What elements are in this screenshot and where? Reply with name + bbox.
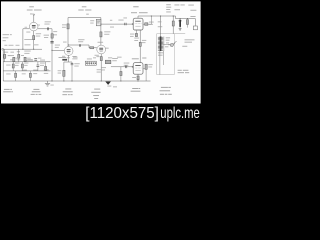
note block 4	[91, 89, 100, 99]
wire cathode tee	[59, 57, 67, 59]
wire grid V1b	[52, 49, 64, 51]
dropping resistor R15	[172, 16, 174, 34]
label row A	[16, 57, 42, 60]
ground bus	[3, 80, 150, 82]
capacitor C1a input row	[34, 57, 37, 60]
title V1a 12AX7	[27, 6, 42, 14]
wire to V1b grid	[51, 29, 53, 81]
grid resistor R12	[120, 67, 122, 81]
cathode V1c	[100, 54, 102, 81]
input notes text	[3, 34, 49, 74]
note block 3	[62, 89, 72, 96]
wire input line	[4, 48, 42, 50]
node bus junctions	[52, 81, 53, 82]
input jack J1	[2, 48, 4, 50]
cathode resistor R2	[33, 31, 35, 49]
white schematic sheet	[1, 1, 201, 103]
wire grid V3	[111, 66, 133, 68]
resistor R7 cathode	[63, 70, 65, 76]
wire heater line 1	[3, 61, 50, 63]
tube V1c	[95, 42, 109, 56]
wire primary return	[159, 51, 161, 75]
wire cathode V1b	[68, 55, 70, 62]
resistor R14	[145, 64, 147, 69]
tube V2	[133, 18, 143, 30]
capacitor C4	[79, 44, 80, 47]
resistor R21	[12, 64, 14, 68]
resistor R25	[29, 73, 31, 77]
wire heater line 2	[3, 70, 50, 72]
resistor R1a input row	[13, 57, 15, 61]
plate resistor R4	[67, 24, 69, 29]
resistor R1b input row	[24, 57, 26, 61]
svg-text:uplc.me: uplc.me	[160, 105, 200, 122]
note rows right mid	[178, 70, 190, 73]
capacitor C2	[47, 27, 48, 30]
note block 2	[31, 89, 42, 95]
capacitor C5	[126, 65, 127, 68]
screen resistor R11	[145, 23, 148, 26]
rectifier block D1	[193, 26, 197, 30]
note block 6	[160, 87, 172, 95]
resistor R1 grid leak	[4, 54, 6, 58]
note mark center	[50, 84, 53, 87]
PSU rail step	[176, 16, 196, 26]
node grid junction	[22, 49, 23, 50]
tube V1a	[29, 22, 38, 31]
pot P1	[105, 60, 111, 64]
cathode V2 long wire	[139, 30, 141, 62]
terminal strip TS1	[85, 61, 96, 65]
B+ stub node	[33, 15, 35, 18]
chassis ground arrow	[105, 82, 111, 85]
coupling wire to V2 grid	[101, 23, 133, 25]
pointer arrow	[173, 41, 176, 44]
wire OPT top extension	[174, 33, 185, 35]
cathode resistor R5b	[62, 59, 67, 61]
wire B+ down to OPT	[160, 16, 162, 36]
filter capacitor C10	[179, 20, 181, 27]
note block 1	[3, 89, 13, 92]
wire input shield	[2, 49, 4, 81]
wire cathode node	[64, 61, 72, 63]
output transformer box	[157, 34, 174, 75]
wire plate V1a	[33, 18, 35, 23]
coupling wire V1b to V1c	[69, 45, 97, 48]
svg-text:[1120x575]: [1120x575]	[85, 105, 159, 122]
capacitor C7	[50, 40, 53, 43]
cathode resistor R13	[137, 75, 139, 81]
wire grid V1a to input	[23, 29, 30, 49]
capacitor C9	[37, 62, 39, 71]
title V2	[131, 6, 148, 13]
ground PSU	[179, 29, 182, 31]
label row	[24, 59, 33, 62]
resistor R16	[186, 20, 188, 25]
speaker jack J2	[170, 43, 173, 46]
PSU labels	[166, 4, 196, 17]
resistor R24	[15, 73, 17, 77]
plate feed V1c	[100, 18, 102, 45]
black background	[0, 0, 204, 124]
node grid V1b	[51, 50, 52, 51]
resistor R23	[45, 66, 47, 70]
tube V1b	[64, 47, 73, 56]
B+ rail	[68, 18, 101, 47]
wire plate V2 to B+	[138, 16, 176, 18]
resistor R3	[18, 54, 20, 58]
resistor R8 plate	[100, 32, 102, 37]
coupling wire V1a plate	[38, 28, 52, 30]
cathode resistor R11a	[135, 33, 137, 36]
transformer T2 winding	[160, 36, 162, 51]
wire secondary tap	[162, 44, 171, 46]
note block 5	[131, 88, 141, 92]
ground symbol left	[47, 81, 49, 83]
tube V3	[133, 63, 143, 74]
resistor R22	[21, 64, 23, 68]
choke L1	[96, 19, 101, 26]
grid stopper R9	[90, 47, 94, 49]
title V3	[132, 58, 147, 60]
resistor R6	[51, 34, 53, 38]
title V1b 12AX7	[78, 6, 91, 14]
capacitor C3	[125, 23, 126, 26]
wire secondary return	[162, 51, 164, 65]
capacitor C8 bypass	[71, 62, 73, 81]
